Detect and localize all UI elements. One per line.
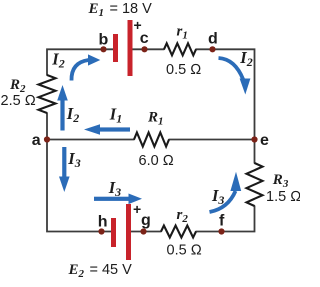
svg-text:g: g	[141, 212, 151, 229]
svg-text:= 45 V: = 45 V	[90, 262, 133, 278]
node b	[100, 46, 106, 52]
node e	[251, 136, 257, 142]
wire top-left segment	[47, 49, 113, 75]
arrow I3 down below a	[59, 147, 70, 192]
battery E1 long bar	[128, 20, 133, 76]
wire r2 to battery2	[131, 231, 161, 233]
svg-text:b: b	[99, 32, 109, 49]
resistor r2	[161, 226, 196, 238]
svg-text:f: f	[219, 213, 225, 230]
node f	[218, 228, 224, 234]
node h	[98, 228, 104, 234]
svg-text:d: d	[208, 31, 218, 48]
resistor R3	[247, 163, 263, 206]
svg-text:2.5 Ω: 2.5 Ω	[1, 93, 36, 109]
arrow I2 straight up left	[57, 85, 68, 131]
svg-text:h: h	[98, 214, 108, 231]
arrow I2 curved top-right	[219, 58, 251, 95]
arrow I2 curved top-left	[71, 54, 100, 80]
battery E2 long bar	[126, 204, 131, 260]
node c	[141, 46, 147, 52]
svg-text:= 18 V: = 18 V	[110, 1, 153, 17]
battery E1 short bar	[113, 34, 118, 62]
arrow I3 right bottom	[94, 194, 142, 205]
node d	[209, 46, 215, 52]
resistor R2	[39, 75, 56, 113]
svg-text:c: c	[140, 30, 149, 47]
svg-text:+: +	[133, 201, 141, 217]
resistor R1	[134, 133, 169, 147]
wire battery2 to bottom-left corner up to R2	[47, 113, 111, 232]
arrow I3 curved bottom-right	[210, 172, 242, 212]
svg-text:1.5 Ω: 1.5 Ω	[266, 189, 300, 205]
svg-text:6.0 Ω: 6.0 Ω	[139, 153, 174, 169]
wire r1 to top-right corner down to e	[196, 49, 255, 163]
svg-text:0.5 Ω: 0.5 Ω	[167, 243, 202, 259]
battery E2 short bar	[111, 218, 116, 247]
resistor r1	[164, 43, 196, 55]
wire R1 to e	[169, 139, 255, 141]
wire middle a to R1	[47, 139, 134, 141]
svg-text:a: a	[32, 132, 41, 149]
node a	[44, 136, 50, 142]
node g	[140, 228, 146, 234]
arrow I1 left	[84, 124, 130, 135]
svg-text:0.5 Ω: 0.5 Ω	[166, 62, 201, 78]
svg-text:e: e	[260, 132, 269, 149]
wire R3 to bottom-right corner to r2	[196, 206, 255, 232]
wire battery1 to r1	[133, 48, 165, 50]
